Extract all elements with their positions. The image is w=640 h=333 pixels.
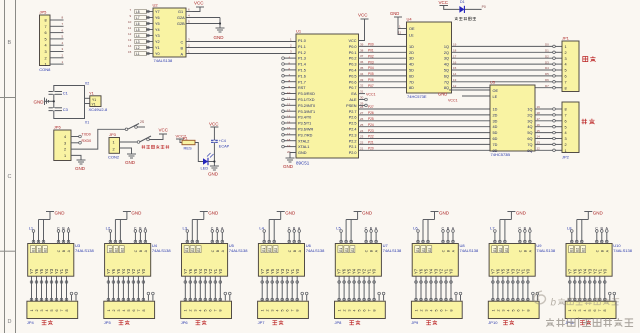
svg-text:38: 38 [360,48,364,52]
svg-text:6Q: 6Q [527,137,532,141]
svg-text:RXD0: RXD0 [82,139,92,143]
svg-text:16: 16 [287,126,291,130]
svg-text:LE: LE [493,95,498,99]
svg-text:5D: 5D [409,69,414,73]
svg-text:+C4: +C4 [219,139,226,143]
svg-text:32: 32 [360,84,364,88]
svg-text:19: 19 [287,144,291,148]
svg-text:JP4: JP4 [27,320,35,325]
svg-text:1: 1 [565,149,567,153]
svg-text:R1: R1 [183,136,188,140]
svg-text:31: 31 [360,90,364,94]
svg-text:P2.1: P2.1 [349,145,357,149]
svg-text:2: 2 [64,148,66,152]
svg-text:P3.1/TXD: P3.1/TXD [298,98,315,102]
svg-text:2: 2 [565,51,567,55]
svg-text:Y1: Y1 [92,98,96,102]
svg-text:Y2: Y2 [155,40,160,44]
svg-text:JP2: JP2 [562,155,570,160]
svg-text:P3.4/T0: P3.4/T0 [298,116,311,120]
svg-text:P2.6: P2.6 [349,116,357,120]
svg-text:2: 2 [565,143,567,147]
svg-text:6: 6 [565,75,567,79]
svg-text:P02: P02 [368,54,374,58]
svg-text:Y4: Y4 [155,28,160,32]
svg-text:11: 11 [287,97,290,101]
svg-text:JP10: JP10 [488,320,498,325]
svg-text:1: 1 [113,141,115,145]
svg-text:P06: P06 [368,78,374,82]
svg-text:18: 18 [537,111,541,115]
svg-text:VCC: VCC [194,1,204,6]
svg-text:P1.0: P1.0 [298,39,306,43]
svg-text:P0.1: P0.1 [349,51,357,55]
svg-text:XC49U2-8: XC49U2-8 [89,107,108,112]
svg-text:17: 17 [537,117,541,121]
svg-text:P0.0: P0.0 [349,45,357,49]
svg-text:Y3: Y3 [155,34,160,38]
svg-text:13: 13 [453,78,457,82]
svg-text:3: 3 [64,141,66,145]
svg-text:P2.5: P2.5 [349,122,357,126]
svg-text:XTAL1: XTAL1 [298,145,309,149]
svg-text:P07: P07 [368,84,374,88]
svg-text:89C51: 89C51 [296,161,310,166]
svg-text:1: 1 [45,63,47,67]
svg-text:P1.4: P1.4 [298,63,306,67]
svg-text:P3.6/WR: P3.6/WR [298,128,313,132]
svg-text:D1: D1 [460,0,465,4]
svg-text:1: 1 [64,154,66,158]
svg-text:21: 21 [360,147,364,151]
svg-text:14: 14 [287,114,291,118]
svg-text:GND: GND [438,92,447,97]
svg-text:U2: U2 [153,3,159,8]
svg-text:P03: P03 [368,60,374,64]
svg-text:P26: P26 [368,111,374,115]
svg-text:U10: U10 [613,243,621,248]
svg-text:b: b [551,298,557,309]
svg-text:P22: P22 [368,135,374,139]
svg-text:JP8: JP8 [335,320,343,325]
svg-text:P05: P05 [368,72,374,76]
svg-text:GND: GND [208,172,219,177]
svg-text:6D: 6D [493,137,498,141]
svg-text:19: 19 [453,43,457,47]
svg-text:L7: L7 [136,16,140,20]
svg-text:RST: RST [298,86,306,90]
svg-text:28: 28 [360,105,364,109]
svg-text:CON2: CON2 [108,155,120,160]
svg-text:7D: 7D [493,143,498,147]
svg-text:P2.4: P2.4 [349,128,357,132]
svg-text:X2: X2 [85,81,89,85]
svg-text:4: 4 [565,131,567,135]
svg-text:Y5: Y5 [155,22,160,26]
svg-text:VCC1: VCC1 [448,99,458,103]
svg-text:7: 7 [45,25,47,29]
svg-text:U4: U4 [152,243,158,248]
svg-text:P1.3: P1.3 [298,57,306,61]
svg-text:8Q: 8Q [444,86,449,90]
svg-text:8: 8 [565,108,567,112]
svg-text:D3: D3 [545,60,549,64]
svg-text:G2B: G2B [177,22,185,26]
svg-text:P04: P04 [368,66,374,70]
svg-text:26: 26 [360,117,364,121]
svg-text:15: 15 [287,120,291,124]
svg-text:74ALS138: 74ALS138 [154,58,173,63]
svg-text:L6: L6 [136,22,140,26]
svg-text:6: 6 [45,31,47,35]
svg-text:11: 11 [128,26,131,30]
svg-text:P24: P24 [368,123,374,127]
svg-text:6D: 6D [409,74,414,78]
svg-text:4Q: 4Q [444,63,449,67]
svg-text:D6: D6 [545,78,549,82]
svg-text:3Q: 3Q [444,57,449,61]
svg-text:D0: D0 [545,43,549,47]
svg-text:14: 14 [453,72,457,76]
svg-text:7: 7 [565,114,567,118]
svg-text:G2A: G2A [177,16,185,20]
svg-text:L2: L2 [136,46,140,50]
svg-text:Y6: Y6 [155,16,160,20]
svg-text:GND: GND [214,35,225,40]
svg-text:PSEN: PSEN [346,104,357,108]
svg-text:TXD0: TXD0 [82,133,91,137]
svg-text:18: 18 [287,138,291,142]
svg-text:P0.3: P0.3 [349,63,357,67]
svg-text:C: C [181,41,184,45]
svg-text:30: 30 [360,96,364,100]
svg-text:20: 20 [287,150,291,154]
svg-text:15: 15 [128,50,132,54]
svg-text:P0.7: P0.7 [349,86,357,90]
svg-text:22: 22 [360,141,364,145]
svg-text:10: 10 [128,20,132,24]
svg-text:8D: 8D [409,86,414,90]
svg-text:13: 13 [537,141,541,145]
svg-text:17: 17 [453,54,457,58]
svg-text:2: 2 [45,56,47,60]
svg-text:XTAL2: XTAL2 [298,139,309,143]
svg-text:2S: 2S [140,120,145,124]
svg-text:16: 16 [537,123,541,127]
svg-text:5D: 5D [493,131,498,135]
svg-text:P27: P27 [368,105,374,109]
svg-text:P3.3/INT1: P3.3/INT1 [298,110,315,114]
svg-text:L3: L3 [183,226,188,231]
svg-text:7Q: 7Q [444,80,449,84]
svg-text:D7: D7 [545,84,549,88]
svg-text:D1: D1 [545,49,549,53]
svg-text:U8: U8 [460,243,466,248]
svg-text:P1.5: P1.5 [298,69,306,73]
svg-text:3: 3 [565,137,567,141]
svg-text:L4: L4 [259,226,264,231]
svg-text:5: 5 [45,37,47,41]
svg-text:1D: 1D [493,108,498,112]
svg-text:JP5: JP5 [40,10,48,15]
svg-text:CON8: CON8 [39,67,51,72]
svg-text:JP6: JP6 [181,320,189,325]
svg-text:2: 2 [113,148,115,152]
svg-text:L8: L8 [567,226,572,231]
svg-text:LE: LE [409,34,414,38]
svg-text:36: 36 [360,60,364,64]
svg-text:P3.7/RD: P3.7/RD [298,133,313,137]
svg-text:37: 37 [360,54,364,58]
svg-text:JP7: JP7 [258,320,266,325]
svg-text:13: 13 [287,109,291,113]
svg-text:GND: GND [75,166,86,171]
svg-text:1Q: 1Q [527,108,532,112]
svg-text:P1.7: P1.7 [298,80,306,84]
svg-text:VCC: VCC [439,0,449,5]
svg-text:5: 5 [565,69,567,73]
svg-text:P0.6: P0.6 [349,80,357,84]
svg-text:14: 14 [537,135,541,139]
svg-text:12: 12 [537,147,541,151]
svg-text:Y0: Y0 [155,52,160,56]
svg-text:Y1: Y1 [89,91,95,96]
svg-text:X1: X1 [85,120,89,124]
svg-text:6Q: 6Q [444,74,449,78]
svg-text:C: C [8,174,12,180]
svg-text:10: 10 [287,91,291,95]
svg-text:2Q: 2Q [444,51,449,55]
svg-text:D5: D5 [545,72,549,76]
svg-text:8: 8 [45,19,47,23]
svg-text:5Q: 5Q [444,69,449,73]
svg-text:VCC1: VCC1 [366,92,376,96]
svg-text:D: D [8,319,12,325]
svg-text:P3.5/T1: P3.5/T1 [298,122,311,126]
svg-text:25: 25 [360,123,364,127]
svg-text:4: 4 [64,135,66,139]
svg-text:8D: 8D [493,149,498,153]
svg-text:P0.5: P0.5 [349,74,357,78]
svg-text:VCC: VCC [209,122,219,127]
svg-text:P20: P20 [368,147,374,151]
svg-text:JP3: JP3 [109,132,117,137]
svg-text:Y7: Y7 [155,10,160,14]
svg-text:2D: 2D [493,113,498,117]
svg-text:LED: LED [201,166,209,171]
svg-text:12: 12 [128,32,132,36]
svg-text:5Q: 5Q [527,131,532,135]
svg-text:15: 15 [537,129,541,133]
svg-text:U9: U9 [536,243,542,248]
svg-text:VCC: VCC [348,39,356,43]
svg-text:C3: C3 [63,107,69,112]
svg-text:12: 12 [453,84,457,88]
svg-text:D2: D2 [545,54,549,58]
svg-text:7D: 7D [409,80,414,84]
svg-text:U5: U5 [229,243,235,248]
svg-text:4D: 4D [493,125,498,129]
svg-text:P2.2: P2.2 [349,139,357,143]
svg-text:24: 24 [360,129,364,133]
svg-text:8Q: 8Q [527,149,532,153]
svg-text:RES: RES [184,146,193,151]
svg-text:L5: L5 [336,226,341,231]
svg-text:P1.1: P1.1 [298,45,306,49]
svg-text:8: 8 [565,86,567,90]
svg-text:L2: L2 [106,226,111,231]
svg-text:35: 35 [360,66,364,70]
svg-text:P23: P23 [368,129,374,133]
svg-text:15: 15 [453,66,457,70]
svg-text:P00: P00 [368,43,374,47]
svg-text:OE: OE [409,27,415,31]
svg-text:P3.0/RXD: P3.0/RXD [298,92,315,96]
svg-text:3: 3 [565,57,567,61]
svg-text:L8: L8 [136,10,140,14]
svg-text:19: 19 [537,105,541,109]
svg-text:6: 6 [565,119,567,123]
svg-text:P2.7: P2.7 [349,110,357,114]
svg-text:7: 7 [565,80,567,84]
svg-text:1D: 1D [409,45,414,49]
svg-text:JP6: JP6 [54,125,62,130]
svg-text:14: 14 [128,44,132,48]
svg-text:23: 23 [360,135,364,139]
svg-text:1: 1 [565,45,567,49]
svg-text:JP9: JP9 [411,320,419,325]
svg-text:12: 12 [287,103,291,107]
svg-text:17: 17 [287,132,291,136]
svg-text:JP5: JP5 [104,320,112,325]
svg-text:L4: L4 [136,34,140,38]
svg-text:1Q: 1Q [444,45,449,49]
svg-text:3: 3 [45,50,47,54]
svg-text:P0.4: P0.4 [349,69,357,73]
svg-text:74HC573E: 74HC573E [407,94,427,99]
svg-text:L1: L1 [29,226,34,231]
svg-text:GND: GND [125,160,136,165]
svg-text:3D: 3D [409,57,414,61]
svg-text:18: 18 [453,49,457,53]
svg-text:27: 27 [360,111,364,115]
svg-text:ECAP: ECAP [219,145,230,149]
svg-text:GND: GND [34,99,45,104]
svg-text:C1: C1 [63,91,69,96]
svg-text:GND: GND [283,164,294,169]
svg-text:5: 5 [565,125,567,129]
svg-text:JP1: JP1 [562,36,570,41]
svg-text:2Q: 2Q [527,113,532,117]
svg-text:Y1: Y1 [155,46,160,50]
svg-text:P1.2: P1.2 [298,51,306,55]
svg-text:3D: 3D [493,119,498,123]
svg-text:P0.2: P0.2 [349,57,357,61]
svg-text:34: 34 [360,72,364,76]
svg-text:U1: U1 [296,29,302,34]
svg-text:39: 39 [360,42,364,46]
svg-text:U6: U6 [306,243,312,248]
svg-text:U4: U4 [407,17,413,22]
svg-text:L6: L6 [413,226,418,231]
svg-text:ALE: ALE [349,98,357,102]
svg-text:P2.0: P2.0 [349,151,357,155]
svg-text:VCC: VCC [159,128,169,133]
svg-text:G1: G1 [178,10,183,14]
svg-text:L5: L5 [136,28,140,32]
svg-text:2D: 2D [409,51,414,55]
svg-text:4Q: 4Q [527,125,532,129]
svg-text:P3.2/INT0: P3.2/INT0 [298,104,315,108]
svg-text:P25: P25 [368,117,374,121]
svg-text:4: 4 [45,44,47,48]
svg-text:OE: OE [493,89,499,93]
svg-text:P1.6: P1.6 [298,74,306,78]
svg-text:3Q: 3Q [527,119,532,123]
svg-text:P2.3: P2.3 [349,133,357,137]
svg-text:EA: EA [351,92,357,96]
svg-text:11: 11 [398,30,401,34]
svg-text:P01: P01 [368,49,374,53]
svg-text:GND: GND [298,151,307,155]
svg-text:4D: 4D [409,63,414,67]
svg-text:33: 33 [360,78,364,82]
svg-text:4: 4 [565,63,567,67]
svg-text:U7: U7 [383,243,389,248]
svg-text:P0: P0 [482,5,486,9]
svg-text:L3: L3 [136,40,140,44]
svg-text:B: B [8,40,12,46]
svg-text:GND: GND [390,11,399,16]
svg-text:L1: L1 [136,52,140,56]
svg-text:13: 13 [128,38,132,42]
svg-text:U5: U5 [490,80,496,85]
svg-text:D4: D4 [545,66,549,70]
svg-text:P21: P21 [368,141,374,145]
svg-text:16: 16 [453,60,457,64]
svg-text:7Q: 7Q [527,143,532,147]
svg-text:L7: L7 [490,226,495,231]
svg-text:U3: U3 [75,243,81,248]
svg-text:VCC: VCC [358,13,368,18]
